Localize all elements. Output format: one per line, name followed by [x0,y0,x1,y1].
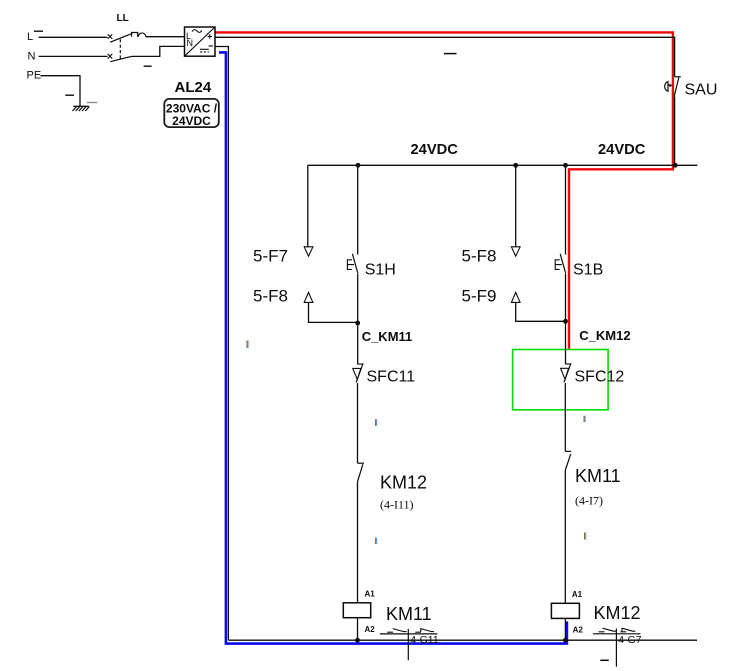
mark I below KM12 label [375,538,377,544]
mirror stem KM12 [615,629,617,667]
svg-text:24VDC: 24VDC [411,142,459,158]
tag dash mid top [444,53,457,55]
wire red 24V trace [216,32,673,348]
pushbutton S1H blade [352,254,358,274]
wire minus output left drop [215,47,228,641]
svg-text:AL24: AL24 [175,79,212,96]
pushbutton S1H lower wire [357,274,359,323]
svg-text:SFC12: SFC12 [575,369,625,386]
mark I below KM11 label [584,532,586,539]
breaker LL pole L blade [110,34,131,42]
pushbutton S1H actuator E [347,260,354,270]
mirror bar KM12 [593,633,641,635]
flow switch SFC11 lower wire [357,383,359,463]
ground PE earth symbol [73,106,90,111]
power supply U1 diagonal [185,27,216,56]
wire rail to 5-F8 arrow [515,165,517,246]
junction rail-5F8 [513,163,518,168]
breaker LL magnetic element [138,33,146,37]
pushbutton SAU NC contact [675,76,681,78]
node L terminal tag [34,30,43,32]
tag dash under N wire [144,65,152,67]
wire PE [41,76,81,107]
connector arrow to 5-F7 [304,247,313,256]
mirror contacts KM12 [599,628,636,632]
mark I below green box [583,416,585,422]
svg-text:KM12: KM12 [594,603,641,623]
svg-text:KM12: KM12 [380,472,427,492]
wire N to PSU [132,46,185,56]
flow switch SFC12 lower wire [564,383,566,451]
pushbutton S1B actuator E [555,260,562,270]
mark I near C_KM11 left [246,341,248,349]
svg-text:A1: A1 [365,590,376,599]
wire 5-F9 arrow to C_KM12 [516,303,566,322]
svg-text:C_KM11: C_KM11 [362,329,413,344]
flow switch SFC12 upper wire [565,321,567,364]
net 24VDC rail [308,164,698,166]
svg-text:A1: A1 [572,590,583,599]
junction rail-SAU [673,163,678,168]
flow switch SFC11 upper wire [357,323,359,364]
flow switch SFC12 contact [565,363,571,365]
wire KM11 contact to coil KM12 [564,471,566,604]
svg-text:5-F7: 5-F7 [253,247,288,266]
svg-text:S1H: S1H [365,261,396,278]
pushbutton SAU mushroom actuator [665,82,668,92]
contact KM12 NO blade [357,464,363,482]
svg-text:LL: LL [117,13,129,24]
svg-text:KM11: KM11 [386,604,432,624]
contact KM11 NO tick [565,450,571,452]
mirror contacts KM11 [387,628,434,632]
flow switch SFC12 triangle [561,368,569,379]
svg-text:C_KM12: C_KM12 [579,328,630,343]
connector arrow from 5-F8 [304,292,313,302]
net 0V rail [228,639,697,641]
svg-text:5-F8: 5-F8 [462,247,497,266]
coil KM12 body [551,603,579,618]
wire KM12 contact to coil KM11 [357,482,359,603]
pushbutton S1H upper wire [357,165,359,254]
svg-text:A2: A2 [573,626,584,635]
wire rail to 5-F7 arrow [307,165,309,246]
power supply U1 plus terminal [208,34,213,38]
mirror bar KM11 [380,633,438,635]
breaker LL thermal element [132,33,138,37]
contact KM12 NO tick [357,462,364,464]
wire plus output top [215,37,675,76]
pushbutton S1B blade [560,254,566,274]
svg-text:(4-I11): (4-I11) [380,498,414,512]
mark I below SFC11 [375,419,377,426]
mirror stem KM11 [407,629,409,660]
power supply rating box [164,99,219,127]
wire blue 0V trace [219,52,567,643]
flow switch SFC11 triangle [353,368,361,379]
breaker LL pole N blade [110,56,132,61]
junction coil KM12 0V [563,638,568,643]
pushbutton S1B lower wire [565,274,567,321]
breaker LL pole N contact x [108,54,113,59]
svg-text:5-F9: 5-F9 [462,286,497,305]
coil KM11 body [343,603,370,618]
svg-text:(4-I7): (4-I7) [575,493,603,507]
highlight green box [513,350,609,410]
breaker LL mechanical link [119,39,121,59]
power supply U1 minus terminal [209,45,214,47]
connector arrow to 5-F8 [511,247,520,256]
svg-text:KM11: KM11 [575,466,621,486]
breaker LL pole L contact x [108,34,113,39]
contact KM11 NO blade [565,454,571,470]
svg-text:5-F8: 5-F8 [253,286,288,305]
svg-text:24VDC: 24VDC [598,142,646,158]
wire L phase [39,36,108,38]
junction rail-S1H [356,163,361,168]
svg-text:A2: A2 [365,625,376,634]
svg-text:S1B: S1B [573,261,603,278]
wire N phase [39,55,108,57]
flow switch SFC11 contact [357,363,363,365]
pushbutton S1B upper wire [565,165,567,254]
svg-text:L: L [27,31,33,43]
wire L to PSU [146,36,185,38]
wire coil KM12 to 0V rail [564,618,566,640]
svg-text:SFC11: SFC11 [367,369,416,386]
tag dash near ground left [65,94,74,96]
wire SAU to rail [674,96,676,165]
tag dash bottom right [600,659,609,661]
svg-text:230VAC /: 230VAC / [166,101,218,115]
wire coil KM11 to 0V rail [357,618,359,641]
wire 5-F8 arrow to C_KM11 [309,303,358,323]
power supply U1 AL24 box [185,27,216,56]
junction rail-S1B [563,163,568,168]
svg-text:24VDC: 24VDC [172,114,211,128]
power supply U1 AC tilde [192,30,202,33]
power supply U1 DC symbol [200,48,209,50]
svg-text:SAU: SAU [685,82,718,99]
node C_KM12 junction [563,319,568,324]
tag dash near ground right [87,102,97,104]
svg-text:N: N [187,38,194,48]
junction coil KM11 0V [355,638,360,643]
svg-text:N: N [28,51,36,63]
svg-text:PE: PE [27,70,42,82]
connector arrow from 5-F9 [511,292,520,302]
node C_KM11 junction [355,321,360,326]
